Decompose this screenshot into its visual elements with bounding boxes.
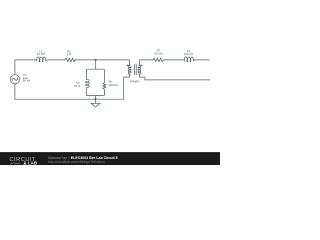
wire L2 to open end	[194, 59, 209, 61]
label R1	[67, 50, 72, 57]
transformer secondary winding	[138, 65, 141, 75]
CircuitLab logo	[9, 157, 37, 165]
wire V1 top	[14, 60, 16, 75]
svg-text:21 mH: 21 mH	[37, 52, 45, 56]
transformer primary winding	[128, 65, 131, 75]
label V1	[23, 73, 31, 83]
label L2	[184, 49, 193, 56]
label XFMR1	[130, 79, 140, 83]
ground	[91, 99, 100, 107]
transformer secondary lead top	[140, 60, 153, 65]
transformer core	[134, 64, 136, 75]
wire Rc bottom	[103, 89, 105, 94]
wire box bottom center to bottom wire	[95, 96, 97, 100]
node junction bottom	[94, 98, 96, 100]
label R2	[154, 49, 162, 56]
parallel box bottom bar	[86, 95, 104, 96]
inductor Lm	[86, 79, 90, 87]
resistor Rc	[103, 83, 106, 90]
svg-text:100 kΩ: 100 kΩ	[109, 83, 118, 87]
transformer polarity dot left	[127, 65, 129, 67]
transformer secondary lead bottom	[140, 75, 145, 80]
wire top from V1 to L1	[15, 59, 36, 61]
wire V1 bottom	[14, 84, 16, 99]
wire bottom secondary	[145, 79, 210, 81]
transformer XFMR1 primary lead top	[128, 60, 130, 65]
svg-text:XFMR1: XFMR1	[130, 79, 140, 83]
transformer primary lead bottom	[124, 75, 130, 100]
wire box top right down to Rc	[103, 70, 105, 83]
label Lm	[74, 81, 81, 89]
wire bottom primary	[15, 98, 124, 100]
svg-text:30 mΩ: 30 mΩ	[154, 52, 162, 56]
inductor L1	[36, 57, 47, 62]
resistor R1	[65, 58, 75, 62]
svg-text:LAB: LAB	[28, 160, 37, 165]
voltage source V1	[10, 75, 19, 84]
svg-text:http://circuitlab.com/c8e4qm7h: http://circuitlab.com/c8e4qm7h94wkm	[48, 160, 105, 164]
transformer polarity dot right	[141, 65, 143, 67]
svg-text:210 µH: 210 µH	[184, 52, 193, 56]
label L1	[37, 49, 45, 56]
wire Lm bottom	[85, 88, 87, 95]
svg-text:47 H: 47 H	[74, 84, 80, 88]
wire junction down to parallel box	[95, 60, 97, 69]
parallel box top bar	[86, 69, 104, 70]
label Rc	[109, 79, 118, 87]
svg-text:2 Ω: 2 Ω	[67, 52, 72, 56]
node junction top	[95, 59, 97, 61]
wire L1 to R1	[47, 59, 65, 61]
wire R2 to L2	[164, 59, 184, 61]
wire box top left down to Lm	[85, 70, 87, 79]
wire R1 to transformer	[75, 59, 130, 61]
inductor L2	[184, 57, 195, 62]
footer bar	[0, 152, 220, 165]
svg-text:50 Hz: 50 Hz	[23, 79, 31, 83]
resistor R2	[153, 58, 163, 62]
